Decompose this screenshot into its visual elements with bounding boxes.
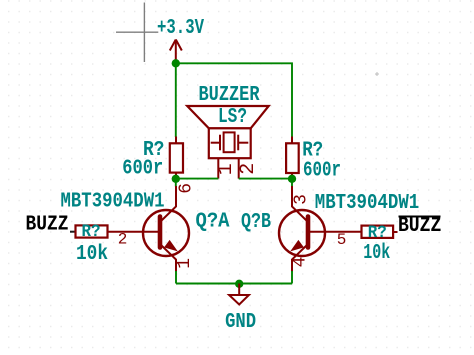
collector lead pin 6	[161, 186, 176, 221]
wire junction row left (to buzzer pin 1)	[176, 178, 219, 180]
svg-text:600r: 600r	[303, 159, 341, 182]
label anchor dash	[70, 231, 77, 233]
wire top rail from +3.3V junction to right drop	[176, 63, 292, 137]
origin crosshair	[116, 3, 158, 63]
svg-text:BUZZ: BUZZ	[398, 215, 442, 238]
cursor mark	[375, 72, 379, 76]
body	[286, 143, 299, 173]
wire left drop to R 600r left	[175, 63, 177, 137]
junction at +3.3V node	[172, 59, 180, 67]
emitter arrow	[165, 241, 175, 250]
ground symbol	[229, 284, 249, 305]
junction left mid node	[172, 175, 180, 183]
svg-text:GND: GND	[225, 311, 256, 334]
resistor R? 10k right	[362, 223, 398, 265]
svg-text:BUZZER: BUZZER	[199, 84, 260, 107]
collector lead pin 3	[292, 186, 307, 221]
svg-text:MBT3904DW1: MBT3904DW1	[315, 192, 420, 215]
base bar	[306, 217, 311, 248]
base lead from resistor	[108, 231, 160, 233]
svg-text:4: 4	[291, 257, 311, 268]
horn trapezoid	[187, 106, 269, 128]
right plate	[237, 135, 239, 151]
svg-text:Q?A: Q?A	[196, 211, 230, 234]
body	[76, 225, 108, 237]
svg-text:2: 2	[118, 231, 128, 249]
svg-text:10k: 10k	[76, 243, 108, 266]
body rectangle	[209, 128, 251, 158]
right lead	[238, 142, 248, 144]
base bar	[158, 217, 163, 248]
resistor R? 600r right	[286, 137, 341, 183]
emitter lead pin 4	[292, 245, 307, 272]
wire ground rail	[176, 283, 292, 285]
local label /BUZZ (active low)	[398, 215, 442, 238]
svg-text:600r: 600r	[122, 157, 163, 180]
transistor Q?B	[241, 186, 419, 272]
body	[170, 143, 183, 172]
svg-text:LS?: LS?	[218, 106, 247, 129]
svg-text:R?: R?	[368, 223, 387, 243]
emitter lead pin 1	[161, 245, 176, 272]
wire right collector stub	[291, 179, 293, 187]
svg-text:Q?B: Q?B	[241, 211, 271, 234]
wire junction row right (buzzer pin 2 to right drop)	[239, 178, 292, 180]
piezo crystal	[224, 132, 235, 152]
svg-text:MBT3904DW1: MBT3904DW1	[61, 191, 165, 214]
svg-text:2: 2	[237, 163, 260, 175]
svg-text:6: 6	[177, 183, 197, 194]
left lead	[211, 142, 220, 144]
right lead	[393, 231, 398, 233]
pin 2	[238, 158, 240, 178]
resistor R? 600r left	[122, 137, 183, 181]
pin wires	[291, 137, 293, 144]
resistor R? 10k left	[70, 222, 108, 266]
junction right mid node	[288, 175, 296, 183]
svg-text:3: 3	[292, 194, 312, 205]
buzzer LS?	[187, 106, 269, 179]
wire left collector stub	[175, 179, 177, 187]
envelope circle	[279, 210, 325, 256]
body	[362, 226, 394, 238]
pin wires	[175, 137, 177, 144]
svg-text:10k: 10k	[363, 242, 390, 265]
power symbol +3.3V	[170, 40, 182, 64]
base lead to resistor	[309, 231, 362, 233]
left plate	[219, 135, 221, 151]
svg-text:BUZZ: BUZZ	[26, 214, 69, 237]
transistor Q?A	[61, 183, 230, 272]
wire left emitter stub	[175, 271, 177, 284]
svg-text:+3.3V: +3.3V	[157, 17, 204, 40]
svg-text:1: 1	[215, 163, 238, 175]
svg-text:5: 5	[337, 231, 347, 249]
pin 1	[217, 158, 219, 178]
wire right emitter stub	[291, 271, 293, 284]
emitter arrow	[292, 241, 302, 250]
svg-text:R?: R?	[82, 222, 101, 242]
envelope circle	[143, 210, 189, 256]
svg-text:1: 1	[175, 258, 195, 269]
junction ground node	[235, 280, 243, 288]
